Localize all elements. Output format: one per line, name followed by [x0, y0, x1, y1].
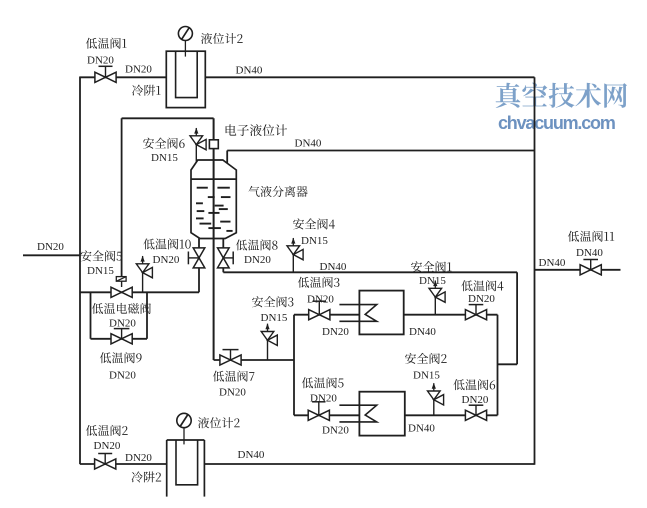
- level gauge 液位计2 (bottom): [177, 413, 191, 444]
- wire relief3 stub: [267, 340, 269, 360]
- electronic level gauge 电子液位计: [209, 140, 218, 149]
- svg-text:DN15: DN15: [261, 312, 288, 324]
- valve 低温阀10: [188, 248, 204, 268]
- svg-text:DN40: DN40: [295, 138, 322, 150]
- wire branch split vertical: [293, 315, 295, 416]
- safety valve 安全阀6: [190, 128, 206, 150]
- safety valve 安全阀3: [261, 323, 277, 345]
- label 低温阀2: [86, 425, 128, 436]
- label 冷阱1: [132, 85, 161, 96]
- svg-text:DN40: DN40: [236, 65, 263, 77]
- label 气液分离器: [248, 186, 307, 197]
- wire bypass loop bottom: [91, 338, 148, 340]
- label 低温阀3: [298, 277, 340, 288]
- heat exchanger 2 box: [359, 392, 404, 436]
- svg-text:DN20: DN20: [109, 318, 136, 330]
- cryogenic solenoid valve 低温电磁阀: [111, 277, 132, 298]
- label 低温电磁阀: [92, 303, 151, 314]
- valve 低温阀11: [580, 260, 601, 275]
- label 安全阀5: [81, 250, 123, 261]
- wire separator left outlet: [198, 239, 200, 293]
- svg-text:DN15: DN15: [87, 265, 114, 277]
- valve 低温阀5: [308, 402, 329, 421]
- wire inlet DN20: [23, 254, 80, 256]
- wire branch collect vertical: [497, 315, 499, 416]
- svg-text:DN40: DN40: [539, 257, 566, 269]
- label 安全阀6: [143, 138, 185, 149]
- label 低温阀1: [86, 38, 127, 49]
- wire relief2 stub: [433, 400, 435, 416]
- valve 低温阀7: [220, 350, 241, 366]
- wire separator outlet stub: [226, 151, 228, 164]
- valve 低温阀6: [465, 405, 486, 420]
- svg-text:DN20: DN20: [219, 387, 246, 399]
- wire header drop right: [516, 272, 518, 364]
- label 低温阀5: [302, 377, 344, 388]
- label 低温阀6: [453, 379, 495, 390]
- wire top line DN20/DN40 (cold trap 1 loop): [80, 76, 535, 78]
- label 安全阀2: [405, 353, 447, 364]
- svg-text:DN15: DN15: [301, 235, 328, 247]
- cold trap 2 vessel (open bottom): [167, 440, 205, 497]
- label 低温阀9: [100, 352, 142, 363]
- wire separator right outlet: [222, 239, 224, 273]
- heat exchanger 2 coil: [339, 405, 376, 422]
- wire main DN40 header: [223, 271, 517, 273]
- svg-text:DN40: DN40: [320, 261, 347, 273]
- svg-text:DN15: DN15: [419, 275, 446, 287]
- label 低温阀7: [213, 371, 255, 382]
- label 低温阀10: [143, 238, 190, 249]
- wire signal line top: [122, 117, 214, 119]
- svg-text:DN20: DN20: [125, 63, 152, 75]
- valve 低温阀1: [95, 66, 116, 82]
- wire bypass loop right: [146, 292, 148, 339]
- valve 低温阀9: [111, 329, 132, 344]
- svg-text:DN40: DN40: [576, 247, 603, 259]
- safety valve 安全阀5: [136, 256, 152, 278]
- valve 低温阀3: [309, 301, 330, 320]
- svg-text:DN20: DN20: [322, 425, 349, 437]
- svg-text:DN20: DN20: [244, 254, 271, 266]
- label 液位计2 top: [201, 33, 243, 44]
- wire DN40 separator gas outlet line: [227, 150, 534, 152]
- label 安全阀1: [411, 261, 452, 272]
- safety valve 安全阀4: [287, 238, 303, 260]
- label 低温阀8: [236, 239, 278, 250]
- label 电子液位计: [226, 124, 287, 136]
- wire header drop connector: [498, 363, 518, 365]
- wire bottom line (cold trap 2 loop): [80, 463, 535, 465]
- wire signal drop to solenoid: [121, 118, 123, 276]
- svg-text:DN15: DN15: [151, 152, 178, 164]
- wire relief6 stub: [195, 145, 197, 162]
- svg-text:DN20: DN20: [87, 55, 114, 67]
- label 冷阱2: [132, 471, 162, 482]
- wire bottom branch: [294, 414, 498, 416]
- svg-text:DN20: DN20: [94, 440, 121, 452]
- wire valve7 line: [214, 359, 294, 361]
- wire relief4 stub: [292, 255, 294, 273]
- svg-text:DN20: DN20: [310, 393, 337, 405]
- wire top branch: [294, 314, 498, 316]
- watermark 真空技术网: [496, 83, 627, 108]
- wire bypass loop left: [90, 292, 92, 339]
- svg-text:DN20: DN20: [153, 254, 180, 266]
- wire right vertical main: [534, 77, 536, 465]
- label 低温阀11: [568, 231, 614, 242]
- svg-text:DN40: DN40: [408, 423, 435, 435]
- svg-text:DN20: DN20: [109, 370, 136, 382]
- svg-text:DN15: DN15: [413, 370, 440, 382]
- label 低温阀4: [461, 280, 503, 291]
- svg-text:DN40: DN40: [238, 449, 265, 461]
- wire solenoid valve line: [80, 291, 199, 293]
- svg-text:DN20: DN20: [307, 294, 334, 306]
- valve 低温阀8: [218, 248, 234, 268]
- wire relief5 stub: [142, 273, 144, 293]
- gas-liquid separator 气液分离器: [191, 160, 236, 239]
- safety valve 安全阀2: [428, 383, 444, 405]
- svg-text:DN40: DN40: [409, 326, 436, 338]
- wire left vertical main: [79, 77, 81, 465]
- label 液位计2 bottom: [198, 417, 240, 428]
- wire electronic gauge dip tube: [213, 118, 215, 360]
- valve 低温阀2: [95, 454, 116, 470]
- svg-text:DN20: DN20: [468, 293, 495, 305]
- safety valve 安全阀1: [429, 280, 445, 302]
- label 安全阀4: [293, 218, 335, 229]
- wire valve11 outlet line: [535, 269, 621, 271]
- svg-text:DN20: DN20: [322, 326, 349, 338]
- cold trap 1 vessel: [166, 51, 205, 107]
- heat exchanger 1 box: [359, 291, 403, 335]
- heat exchanger 1 coil: [339, 305, 376, 322]
- svg-text:DN20: DN20: [37, 241, 64, 253]
- level gauge 液位计2 (top): [178, 27, 192, 57]
- svg-text:DN20: DN20: [125, 452, 152, 464]
- svg-text:chvacuum.com: chvacuum.com: [498, 113, 615, 133]
- svg-text:DN20: DN20: [462, 394, 489, 406]
- label 安全阀3: [252, 296, 293, 307]
- valve 低温阀4: [465, 305, 486, 320]
- wire relief1 stub: [434, 297, 436, 315]
